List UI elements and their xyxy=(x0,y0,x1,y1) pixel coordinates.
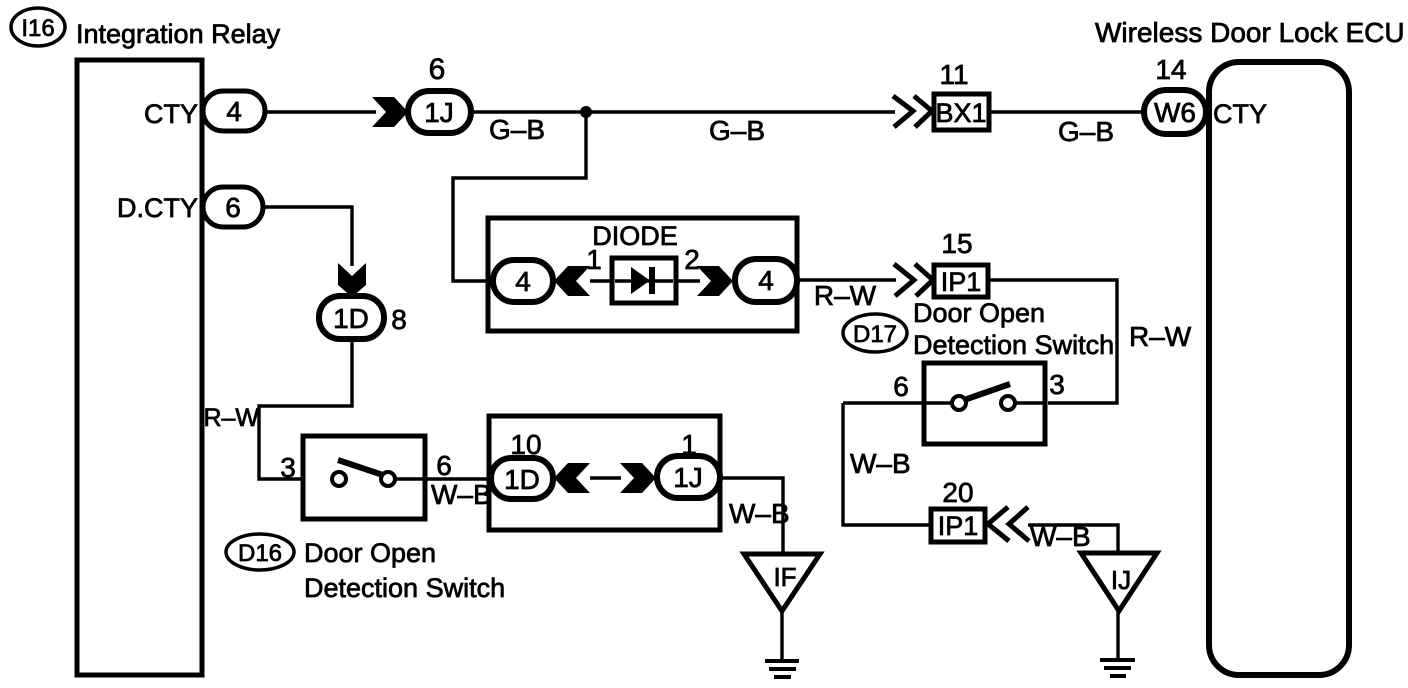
female connector chevrons left at IP1 20 xyxy=(988,507,1029,541)
connector code D17 xyxy=(843,314,907,352)
svg-text:Integration Relay: Integration Relay xyxy=(76,19,281,49)
wire IP1 to switch D17 pin 3 xyxy=(988,280,1117,403)
svg-text:CTY: CTY xyxy=(144,99,198,129)
wire into switch left xyxy=(843,401,952,404)
wire 1J to BX1 xyxy=(471,110,895,113)
connector code I16 xyxy=(11,8,65,46)
female arrow (solid, left) xyxy=(554,463,590,493)
DIODE box xyxy=(488,218,797,331)
ground symbol xyxy=(765,661,799,677)
svg-text:IJ: IJ xyxy=(1111,565,1131,595)
svg-text:Door Open: Door Open xyxy=(304,538,436,568)
junction connector 1D label 8 xyxy=(319,296,407,339)
pin 6 terminal oval xyxy=(203,187,263,227)
ground stem xyxy=(1116,611,1119,659)
svg-text:W–B: W–B xyxy=(729,498,790,529)
connector code D16 xyxy=(226,534,294,570)
svg-text:Wireless Door Lock ECU: Wireless Door Lock ECU xyxy=(1095,17,1405,48)
wire pin6 right then down xyxy=(263,207,352,266)
wire 1J to ground IF xyxy=(720,478,783,556)
junction connector 1J label 6 xyxy=(408,53,471,133)
diode symbol triangle xyxy=(631,267,650,294)
wire diode body to arrow xyxy=(676,279,700,282)
svg-text:D17: D17 xyxy=(853,321,897,348)
wire between arrows xyxy=(590,476,621,479)
switch lever xyxy=(338,460,383,475)
svg-text:W–B: W–B xyxy=(1030,521,1091,552)
svg-text:CTY: CTY xyxy=(1213,99,1267,129)
male connector arrow (solid, right) xyxy=(372,97,408,127)
svg-text:W6: W6 xyxy=(1154,97,1196,128)
male connector arrow (solid, down) xyxy=(338,263,366,297)
female arrow (solid, left) xyxy=(554,266,590,296)
svg-text:1D: 1D xyxy=(504,464,540,495)
switch contact right xyxy=(1001,396,1015,410)
door open detection switch D16 box xyxy=(303,436,425,519)
svg-text:20: 20 xyxy=(942,477,973,508)
svg-text:8: 8 xyxy=(391,304,407,335)
svg-text:1: 1 xyxy=(586,244,602,275)
diode symbol bar xyxy=(649,267,655,294)
ECU pin W6 label 14 xyxy=(1144,54,1206,134)
svg-text:6: 6 xyxy=(225,192,241,223)
svg-text:6: 6 xyxy=(429,53,446,86)
svg-text:IP1: IP1 xyxy=(941,267,982,297)
wire BX1 to W6 xyxy=(991,110,1146,113)
svg-text:3: 3 xyxy=(1049,369,1065,400)
wire diode to IP1 xyxy=(797,278,896,281)
switch contact left xyxy=(952,396,966,410)
svg-text:R–W: R–W xyxy=(814,280,877,311)
pin 4 terminal oval xyxy=(203,91,265,131)
svg-text:1J: 1J xyxy=(673,462,703,493)
svg-text:4: 4 xyxy=(226,96,242,127)
diode pin oval 4 right xyxy=(735,259,797,302)
svg-text:14: 14 xyxy=(1155,54,1186,85)
ground triangle IJ xyxy=(1081,553,1157,611)
wire arrow to diode body xyxy=(590,279,614,282)
switch contact left xyxy=(332,472,346,486)
svg-text:2: 2 xyxy=(684,244,700,275)
ground triangle IF xyxy=(744,554,820,611)
svg-text:1J: 1J xyxy=(424,97,454,128)
switch contact right xyxy=(381,472,395,486)
svg-text:4: 4 xyxy=(758,265,774,296)
svg-text:R–W: R–W xyxy=(203,404,259,432)
svg-text:3: 3 xyxy=(280,452,296,483)
svg-text:R–W: R–W xyxy=(1129,321,1192,352)
male arrow (solid, right) xyxy=(697,266,733,296)
wireless door lock ECU box xyxy=(1209,62,1349,675)
svg-text:11: 11 xyxy=(939,59,968,90)
connector oval 1J xyxy=(657,456,720,498)
svg-text:Door Open: Door Open xyxy=(913,298,1045,328)
female connector chevrons at IP1 xyxy=(894,264,933,296)
wire junction down to diode xyxy=(453,112,586,281)
connector oval 1D xyxy=(491,458,553,499)
svg-text:W–B: W–B xyxy=(431,479,492,510)
junction dot node xyxy=(580,106,592,118)
wire inside switch right xyxy=(1015,401,1045,404)
svg-text:D16: D16 xyxy=(238,540,282,567)
connector IP1 label 15 xyxy=(934,228,988,297)
svg-text:Detection Switch: Detection Switch xyxy=(913,330,1114,360)
wire 1D down left down to switch D16 xyxy=(259,339,352,479)
svg-text:D.CTY: D.CTY xyxy=(117,193,198,223)
connector IP1 label 20 xyxy=(931,477,985,542)
diode symbol wire xyxy=(615,279,673,282)
wire switch to connector box xyxy=(395,477,492,480)
svg-text:BX1: BX1 xyxy=(935,98,986,128)
svg-text:DIODE: DIODE xyxy=(592,221,678,251)
svg-text:IP1: IP1 xyxy=(938,511,979,541)
wire chevrons to IJ ground xyxy=(1028,525,1118,556)
female connector chevrons at BX1 xyxy=(893,96,932,127)
ground symbol xyxy=(1100,660,1135,676)
svg-text:W–B: W–B xyxy=(850,448,911,479)
svg-text:Detection Switch: Detection Switch xyxy=(304,573,505,603)
door open detection switch D17 box xyxy=(924,363,1045,444)
ground stem xyxy=(780,611,783,660)
svg-text:I16: I16 xyxy=(21,15,54,42)
connector BX1 label 11 xyxy=(934,59,989,130)
wire switch down to IP1 20 xyxy=(843,403,931,525)
svg-text:6: 6 xyxy=(436,450,452,481)
integration relay box xyxy=(77,60,202,675)
male arrow (solid, right) xyxy=(620,463,656,493)
svg-text:1D: 1D xyxy=(333,303,369,334)
svg-text:G–B: G–B xyxy=(709,115,765,146)
svg-text:G–B: G–B xyxy=(1058,116,1114,147)
diode element box xyxy=(612,258,676,303)
svg-text:15: 15 xyxy=(941,228,972,259)
diode pin oval 4 left xyxy=(493,260,553,302)
switch lever xyxy=(964,384,1010,400)
svg-text:G–B: G–B xyxy=(489,114,545,145)
svg-text:6: 6 xyxy=(893,371,909,402)
junction connector box 1D-1J xyxy=(489,416,720,530)
svg-text:IF: IF xyxy=(773,562,796,592)
wire pin4 to connector arrow xyxy=(265,110,376,113)
svg-text:4: 4 xyxy=(515,266,531,297)
